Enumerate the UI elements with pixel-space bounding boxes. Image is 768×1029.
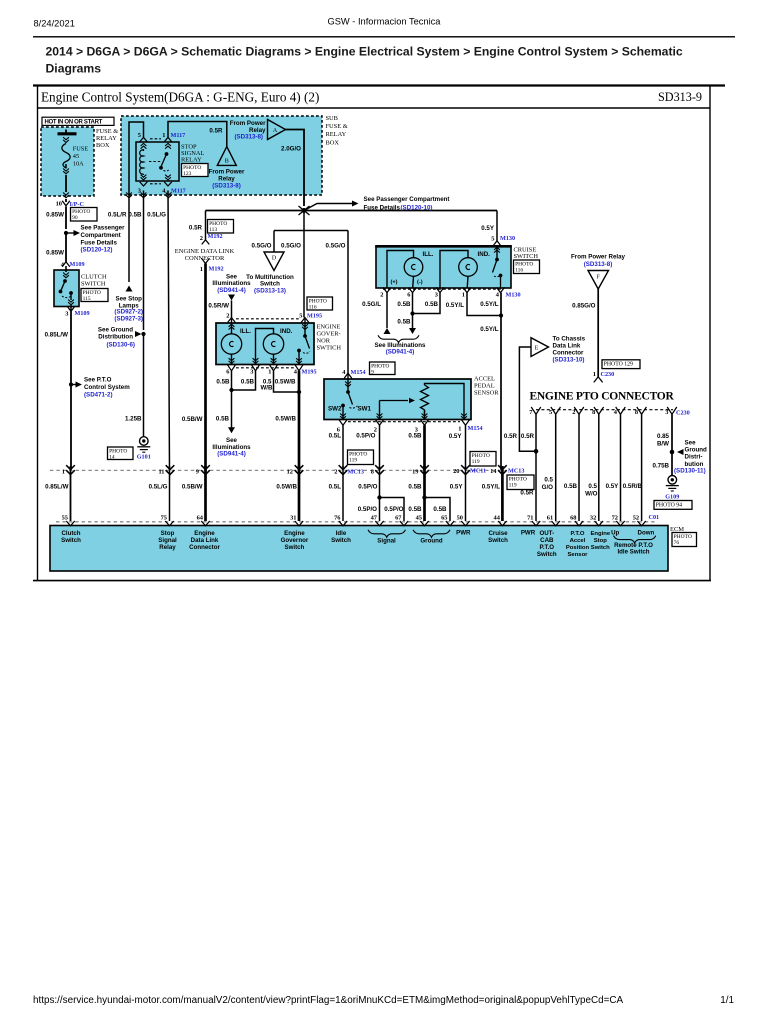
svg-text:0.5B: 0.5B — [216, 378, 230, 385]
triangle F from power relay SD313-8 — [571, 254, 626, 290]
header rule — [33, 36, 735, 37]
svg-text:123: 123 — [183, 171, 192, 177]
photo box PHOTO 119 (MC13 pin2) — [348, 450, 374, 465]
svg-text:PHOTO: PHOTO — [509, 477, 527, 483]
photo box PHOTO 116 (cruise) — [514, 260, 540, 274]
cruise switch M130 box — [375, 246, 512, 288]
svg-text:PHOTO: PHOTO — [349, 452, 367, 458]
svg-text:72: 72 — [612, 514, 618, 521]
svg-text:Switch: Switch — [488, 537, 508, 544]
svg-text:0.5Y/L: 0.5Y/L — [482, 483, 500, 490]
svg-text:PWR: PWR — [456, 530, 471, 537]
ECM terminal labels — [61, 530, 654, 558]
svg-text:(SD313-8): (SD313-8) — [234, 133, 263, 140]
breadcrumb — [46, 45, 683, 76]
svg-text:8: 8 — [635, 409, 638, 416]
photo box PHOTO 90 — [71, 208, 98, 222]
svg-text:PHOTO: PHOTO — [209, 221, 227, 227]
photo box PHOTO 113 — [208, 220, 234, 234]
svg-text:1: 1 — [268, 368, 271, 375]
svg-text:0.5R: 0.5R — [521, 433, 535, 440]
svg-text:12: 12 — [287, 468, 293, 475]
governor wire labels — [216, 378, 296, 391]
wire 0.5Y/L to ECM 44 — [482, 466, 503, 521]
wire 0.5L/G to ECM 75 — [149, 466, 170, 521]
connector M109 pin 3 — [65, 306, 89, 317]
svg-text:0.5: 0.5 — [588, 483, 597, 490]
svg-text:NOR: NOR — [317, 338, 331, 345]
svg-text:M154: M154 — [351, 369, 366, 376]
svg-text:BOX: BOX — [96, 142, 110, 149]
svg-text:(SD130-6): (SD130-6) — [106, 341, 135, 348]
svg-text:ACCEL: ACCEL — [474, 375, 495, 382]
svg-text:119: 119 — [509, 483, 517, 489]
svg-text:(SD941-4): (SD941-4) — [217, 287, 246, 294]
reference see illuminations SD941-4 (cruise) — [375, 335, 426, 355]
wire 0.75B to ground — [671, 452, 673, 475]
wire 0.5G/O to triangle D — [273, 231, 275, 253]
svg-text:SW2: SW2 — [328, 405, 342, 412]
engine governor switch M195 box — [216, 323, 314, 365]
svg-text:M192: M192 — [209, 266, 224, 273]
svg-text:3: 3 — [435, 291, 438, 298]
wire 0.5Y PTO pin4 to ECM 72 — [606, 414, 621, 521]
svg-text:3: 3 — [138, 188, 141, 195]
wire 0.5B/W engine data link to MC pin 9 — [182, 264, 206, 471]
wire 0.5R/W to governor pin 2 — [231, 301, 233, 318]
svg-text:0.5L/G: 0.5L/G — [147, 212, 166, 219]
wire junction horizontal right — [304, 210, 497, 212]
svg-text:C230: C230 — [676, 410, 690, 417]
svg-text:See Passenger Compartment: See Passenger Compartment — [364, 196, 450, 203]
svg-text:(SD120-12): (SD120-12) — [81, 247, 113, 254]
photo box PHOTO 115 — [81, 289, 108, 302]
svg-text:5: 5 — [549, 409, 552, 416]
svg-text:M130: M130 — [506, 291, 521, 298]
svg-text:RELAY: RELAY — [326, 131, 347, 138]
svg-text:Compartment: Compartment — [81, 232, 121, 239]
svg-text:19: 19 — [412, 468, 418, 475]
svg-text:Idle Switch: Idle Switch — [617, 548, 649, 555]
svg-text:2014 > D6GA > D6GA > Schematic: 2014 > D6GA > D6GA > Schematic Diagrams … — [46, 45, 683, 59]
svg-text:Switch: Switch — [331, 537, 351, 544]
svg-text:3: 3 — [65, 311, 68, 318]
svg-text:A: A — [273, 128, 278, 134]
svg-text:SW1: SW1 — [358, 405, 372, 412]
svg-text:14: 14 — [109, 455, 115, 461]
governor lamp IND — [253, 328, 293, 364]
cruise lamp IND — [440, 251, 490, 289]
ECM connector dashed line — [56, 521, 655, 523]
svg-text:2.0G/O: 2.0G/O — [281, 146, 301, 153]
accel switches SW2 SW1 — [328, 375, 371, 420]
svg-text:0.5P/O: 0.5P/O — [358, 483, 377, 490]
svg-text:Ground: Ground — [420, 537, 442, 544]
svg-text:116: 116 — [309, 305, 317, 311]
svg-text:SUB: SUB — [326, 115, 338, 122]
svg-text:From Power Relay: From Power Relay — [571, 254, 626, 261]
wire 0.5W/O PTO pin8 to ECM 32 — [585, 414, 599, 521]
svg-text:Up: Up — [611, 530, 619, 537]
svg-text:Down: Down — [638, 530, 655, 537]
svg-text:M109: M109 — [75, 310, 90, 317]
svg-text:M154: M154 — [468, 425, 483, 432]
svg-text:0.5R/B: 0.5R/B — [623, 483, 643, 490]
wire 0.5B to see illuminations — [212, 390, 251, 458]
svg-text:(SD941-4): (SD941-4) — [386, 348, 415, 355]
svg-text:(SD927-3): (SD927-3) — [114, 315, 143, 322]
connector row MC11/MC13 dashed line — [50, 469, 506, 471]
svg-text:(SD120-10): (SD120-10) — [401, 204, 433, 211]
wire 0.5P/O to MC pin 8 — [379, 425, 381, 470]
svg-text:2: 2 — [572, 409, 575, 416]
cruise wire labels row1 — [362, 301, 499, 309]
wire 1.25B to ground — [143, 334, 145, 437]
svg-text:0.5L/G: 0.5L/G — [149, 483, 168, 490]
node see ground distribution SD130-11 — [670, 439, 707, 474]
svg-text:M109: M109 — [70, 261, 85, 268]
svg-text:0.5L: 0.5L — [329, 483, 342, 490]
wire 0.5R PTO pin7 to ECM 71 — [504, 414, 536, 521]
svg-text:76: 76 — [334, 514, 341, 521]
svg-text:(SD471-2): (SD471-2) — [84, 391, 113, 398]
svg-text:0.5W/B: 0.5W/B — [275, 378, 296, 385]
brace Signal — [368, 530, 406, 545]
svg-text:1: 1 — [62, 468, 65, 475]
stop signal relay M117 — [136, 132, 186, 195]
wire 0.85W lower — [65, 233, 67, 262]
svg-text:M195: M195 — [307, 312, 322, 319]
svg-text:65: 65 — [441, 514, 447, 521]
svg-text:Distribution: Distribution — [98, 334, 133, 341]
wire 0.5Y to cruise switch pin 5 — [496, 211, 498, 241]
cruise switch contact — [493, 247, 503, 289]
svg-text:11: 11 — [158, 468, 164, 475]
svg-text:0.85L/W: 0.85L/W — [45, 332, 69, 339]
clutch switch M109 — [54, 266, 79, 310]
svg-text:5: 5 — [299, 312, 302, 319]
svg-text:5: 5 — [138, 132, 141, 139]
svg-text:SWITCH: SWITCH — [81, 281, 106, 288]
svg-text:0.85W: 0.85W — [46, 212, 64, 219]
photo box PHOTO 116 (governor) — [307, 297, 333, 310]
governor switch contact — [296, 319, 310, 364]
svg-text:(SD313-13): (SD313-13) — [254, 288, 286, 295]
svg-text:0.5B: 0.5B — [408, 432, 422, 439]
svg-text:Switch: Switch — [285, 544, 305, 551]
svg-text:45: 45 — [416, 514, 422, 521]
svg-text:C01: C01 — [649, 514, 660, 521]
wire 2.0G/O from triangle A — [286, 130, 305, 207]
svg-text:Connector: Connector — [553, 349, 585, 356]
svg-text:52: 52 — [633, 514, 639, 521]
svg-text:P.T.O: P.T.O — [571, 531, 585, 537]
svg-text:0.85: 0.85 — [657, 433, 670, 440]
svg-text:2: 2 — [200, 235, 203, 242]
ECM pins C01 — [62, 514, 660, 526]
diagram frame — [33, 85, 725, 581]
svg-text:Relay: Relay — [159, 544, 176, 551]
arrow see passenger compartment fuse details SD120-10 — [304, 196, 449, 212]
reference see stop lamps SD927-2 SD927-3 — [114, 286, 143, 323]
wire relay pin5 loop to stop lamps — [129, 122, 144, 282]
svg-text:0.5G/O: 0.5G/O — [326, 243, 346, 250]
svg-text:67: 67 — [395, 514, 402, 521]
connector MC pin 1 — [62, 465, 75, 475]
wire 0.5Y/L merge (pins 1+4) — [467, 293, 503, 470]
svg-text:C230: C230 — [601, 371, 615, 378]
svg-text:ENGINE PTO CONNECTOR: ENGINE PTO CONNECTOR — [529, 391, 674, 403]
ECM box — [50, 526, 668, 572]
triangle B from power relay SD313-8 — [209, 147, 245, 190]
svg-text:PEDAL: PEDAL — [474, 382, 495, 389]
svg-text:SENSOR: SENSOR — [474, 389, 499, 396]
svg-text:B: B — [225, 159, 229, 165]
svg-text:Switch: Switch — [537, 551, 557, 558]
node 0.5R junction — [534, 449, 539, 454]
wire 0.85G/O — [597, 289, 599, 377]
svg-text:119: 119 — [349, 458, 357, 464]
wire 0.5G/O PTO pin5 to ECM 61 — [542, 414, 556, 521]
svg-text:https://service.hyundai-motor.: https://service.hyundai-motor.com/manual… — [33, 995, 623, 1006]
svg-text:1.25B: 1.25B — [125, 416, 142, 423]
svg-text:2: 2 — [334, 468, 337, 475]
svg-text:0.5R: 0.5R — [520, 490, 534, 497]
svg-text:M117: M117 — [171, 187, 186, 194]
svg-text:0.5W/B: 0.5W/B — [276, 483, 297, 490]
wire 0.5L to ECM 76 — [329, 466, 343, 521]
wire trunk to governor switch pin 5 — [303, 211, 305, 318]
photo box PHOTO 9 — [370, 362, 396, 375]
connector I/P-C pin 10 — [56, 199, 84, 208]
svg-text:0.5B: 0.5B — [425, 301, 439, 308]
connector M195 pin 5 — [299, 312, 322, 322]
svg-text:M192: M192 — [208, 233, 223, 240]
svg-text:(SD941-4): (SD941-4) — [217, 451, 246, 458]
svg-text:ENGINE: ENGINE — [317, 323, 341, 330]
svg-text:MC13: MC13 — [348, 468, 365, 475]
photo box PHOTO 14 — [108, 447, 134, 460]
svg-text:Engine Control System(D6GA : G: Engine Control System(D6GA : G-ENG, Euro… — [41, 90, 319, 105]
svg-text:1/1: 1/1 — [720, 995, 734, 1006]
svg-text:PHOTO: PHOTO — [371, 364, 389, 370]
svg-text:0.5B/W: 0.5B/W — [182, 416, 203, 423]
svg-text:0.5Y: 0.5Y — [449, 433, 463, 440]
engine PTO connector C230 pins 7 5 2 8 4 8 3 — [529, 407, 689, 417]
svg-text:3: 3 — [250, 368, 253, 375]
wire 0.5B to ECM 45 and 65 — [408, 466, 450, 521]
connector MC pin 19 — [412, 465, 429, 475]
svg-text:CONNECTOR: CONNECTOR — [185, 255, 225, 262]
svg-text:(SD313-8): (SD313-8) — [584, 261, 613, 268]
svg-text:1: 1 — [458, 425, 461, 432]
wire 0.85L/W — [70, 311, 72, 470]
svg-text:14: 14 — [490, 468, 497, 475]
svg-text:20: 20 — [453, 468, 459, 475]
svg-text:0.85W: 0.85W — [46, 250, 64, 257]
svg-text:Sensor: Sensor — [568, 552, 589, 558]
svg-text:G109: G109 — [665, 493, 679, 500]
svg-text:See Passenger: See Passenger — [81, 225, 126, 232]
svg-text:31: 31 — [290, 514, 296, 521]
svg-text:10: 10 — [56, 201, 62, 208]
svg-text:0.5P/O: 0.5P/O — [384, 506, 403, 513]
accel potentiometer — [377, 384, 467, 420]
svg-text:32: 32 — [590, 514, 596, 521]
svg-text:0.5B: 0.5B — [408, 506, 422, 513]
triangle D to multifunction switch SD313-13 — [246, 252, 294, 295]
svg-text:0.5Y: 0.5Y — [481, 225, 495, 232]
brace Remote P.T.O Idle Switch — [614, 536, 656, 556]
svg-text:Control System: Control System — [84, 384, 130, 391]
svg-text:0.5B: 0.5B — [397, 301, 411, 308]
svg-text:0.5G/O: 0.5G/O — [281, 243, 301, 250]
svg-text:Fuse Details: Fuse Details — [364, 204, 401, 211]
svg-text:D: D — [272, 256, 277, 262]
wire 0.5G/O to accel pedal sensor — [347, 231, 349, 374]
svg-text:0.5P/O: 0.5P/O — [356, 432, 375, 439]
svg-text:(SD313-8): (SD313-8) — [212, 182, 241, 189]
svg-text:See P.T.O: See P.T.O — [84, 377, 112, 384]
svg-text:0.5B: 0.5B — [216, 415, 230, 422]
svg-text:SWTICH: SWTICH — [317, 345, 342, 352]
svg-text:Signal: Signal — [377, 537, 396, 544]
photo box PHOTO 76 — [672, 533, 697, 547]
wire 0.5G/L to illuminations — [384, 293, 391, 334]
svg-text:0.5B: 0.5B — [408, 483, 422, 490]
svg-text:PHOTO: PHOTO — [674, 534, 692, 540]
ground G109 — [665, 476, 679, 501]
svg-text:0.5G/O: 0.5G/O — [252, 243, 272, 250]
photo box PHOTO 94 — [654, 501, 692, 510]
wire 0.5P/O to ECM 47 and 67 — [358, 466, 404, 521]
wire 0.5Y to MC pin 20 — [465, 425, 467, 470]
node see ground distribution SD130-6 — [98, 327, 146, 349]
governor connector dashed line — [236, 318, 300, 320]
connector M195 pin 2 — [226, 312, 235, 322]
fuse & relay box (dashed) — [41, 127, 94, 196]
svg-text:90: 90 — [72, 215, 78, 221]
svg-text:2: 2 — [226, 312, 229, 319]
wire 0.85L/W to ECM 55 — [45, 466, 70, 521]
svg-text:BOX: BOX — [326, 139, 340, 146]
svg-text:PHOTO: PHOTO — [515, 262, 533, 268]
svg-text:0.5L: 0.5L — [329, 432, 342, 439]
svg-text:PHOTO: PHOTO — [309, 299, 327, 305]
svg-text:PHOTO: PHOTO — [72, 209, 90, 215]
svg-text:Switch: Switch — [61, 537, 81, 544]
triangle A from power relay SD313-8 — [230, 120, 286, 141]
connector MC13 pin 14 — [490, 465, 524, 475]
svg-text:PHOTO: PHOTO — [183, 165, 201, 171]
svg-text:Ground: Ground — [685, 447, 708, 454]
svg-text:PWR: PWR — [521, 530, 536, 537]
svg-text:1: 1 — [200, 266, 203, 273]
svg-text:0.85L/W: 0.85L/W — [45, 483, 69, 490]
svg-text:G101: G101 — [137, 454, 151, 461]
svg-text:To Chassis: To Chassis — [553, 335, 586, 342]
svg-text:Engine: Engine — [590, 531, 610, 537]
svg-text:W/B: W/B — [260, 385, 273, 392]
svg-text:M130: M130 — [500, 235, 515, 242]
accel wire labels — [329, 432, 463, 440]
svg-text:(+): (+) — [391, 279, 398, 285]
cruise bottom connector M130 pins 2 6 3 1 4 — [380, 287, 520, 298]
node see passenger compartment fuse details SD120-12 — [64, 225, 125, 254]
svg-text:Accel: Accel — [570, 538, 586, 544]
svg-text:61: 61 — [547, 514, 553, 521]
svg-text:0.5Y/L: 0.5Y/L — [480, 326, 498, 333]
svg-text:0.5Y: 0.5Y — [606, 483, 620, 490]
svg-text:8: 8 — [592, 409, 595, 416]
fuse 45 10A — [58, 130, 89, 198]
svg-text:2: 2 — [380, 291, 383, 298]
photo box PHOTO 129 — [602, 360, 640, 369]
wire 0.5Y to ECM 50 — [450, 466, 466, 521]
svg-text:PHOTO: PHOTO — [83, 290, 101, 296]
label ENGINE DATA LINK CONNECTOR — [175, 248, 235, 262]
svg-text:76: 76 — [674, 540, 680, 546]
svg-text:Stop: Stop — [594, 538, 607, 544]
svg-text:0.5Y: 0.5Y — [450, 483, 464, 490]
svg-text:75: 75 — [161, 514, 167, 521]
svg-text:PHOTO 94: PHOTO 94 — [656, 502, 683, 508]
svg-text:PHOTO: PHOTO — [109, 449, 127, 455]
svg-text:0.5W/B: 0.5W/B — [275, 415, 296, 422]
svg-text:G/O: G/O — [542, 484, 554, 491]
svg-text:Position: Position — [566, 545, 590, 551]
svg-text:9: 9 — [371, 370, 374, 376]
photo box PHOTO 123 — [182, 164, 209, 177]
connector C230 pin 1 — [593, 371, 614, 383]
accel pedal sensor M154 box — [324, 379, 471, 420]
svg-text:8: 8 — [371, 468, 374, 475]
svg-text:I/P-C: I/P-C — [70, 201, 84, 208]
svg-text:0.5P/O: 0.5P/O — [358, 506, 377, 513]
svg-text:RELAY: RELAY — [181, 157, 202, 164]
svg-text:1: 1 — [462, 291, 465, 298]
svg-text:115: 115 — [83, 296, 91, 302]
svg-text:47: 47 — [371, 514, 378, 521]
wire 0.5B merge (pins 6+3) — [397, 293, 440, 334]
connector M192 pin 2 — [200, 233, 223, 244]
wire 0.85W upper — [65, 207, 67, 230]
svg-text:MC11: MC11 — [470, 467, 486, 474]
svg-text:5: 5 — [491, 236, 494, 243]
svg-text:71: 71 — [527, 514, 533, 521]
svg-text:E: E — [535, 346, 539, 352]
svg-text:PHOTO: PHOTO — [472, 453, 490, 459]
svg-text:44: 44 — [494, 514, 501, 521]
svg-text:ILL.: ILL. — [240, 328, 251, 335]
svg-text:Data Link: Data Link — [553, 342, 581, 349]
svg-text:64: 64 — [197, 514, 204, 521]
svg-text:0.5G/L: 0.5G/L — [362, 301, 381, 308]
wire 0.5R/B PTO pin8 to ECM 52 — [623, 414, 643, 521]
svg-text:GOVER-: GOVER- — [317, 330, 341, 337]
svg-text:8/24/2021: 8/24/2021 — [34, 19, 75, 29]
svg-text:(SD130-11): (SD130-11) — [674, 467, 706, 474]
svg-text:0.5R: 0.5R — [189, 225, 203, 232]
svg-text:See: See — [685, 439, 697, 446]
cruise lamp ILL — [387, 251, 434, 289]
svg-text:ILL.: ILL. — [423, 251, 434, 258]
brace Ground — [413, 530, 450, 545]
wire 0.5R branch to triangle E — [519, 347, 536, 451]
svg-text:0.5B: 0.5B — [433, 506, 447, 513]
svg-text:(-): (-) — [417, 279, 423, 285]
wires 0.5L/R 0.5B 0.5L/G below relay — [108, 191, 171, 471]
